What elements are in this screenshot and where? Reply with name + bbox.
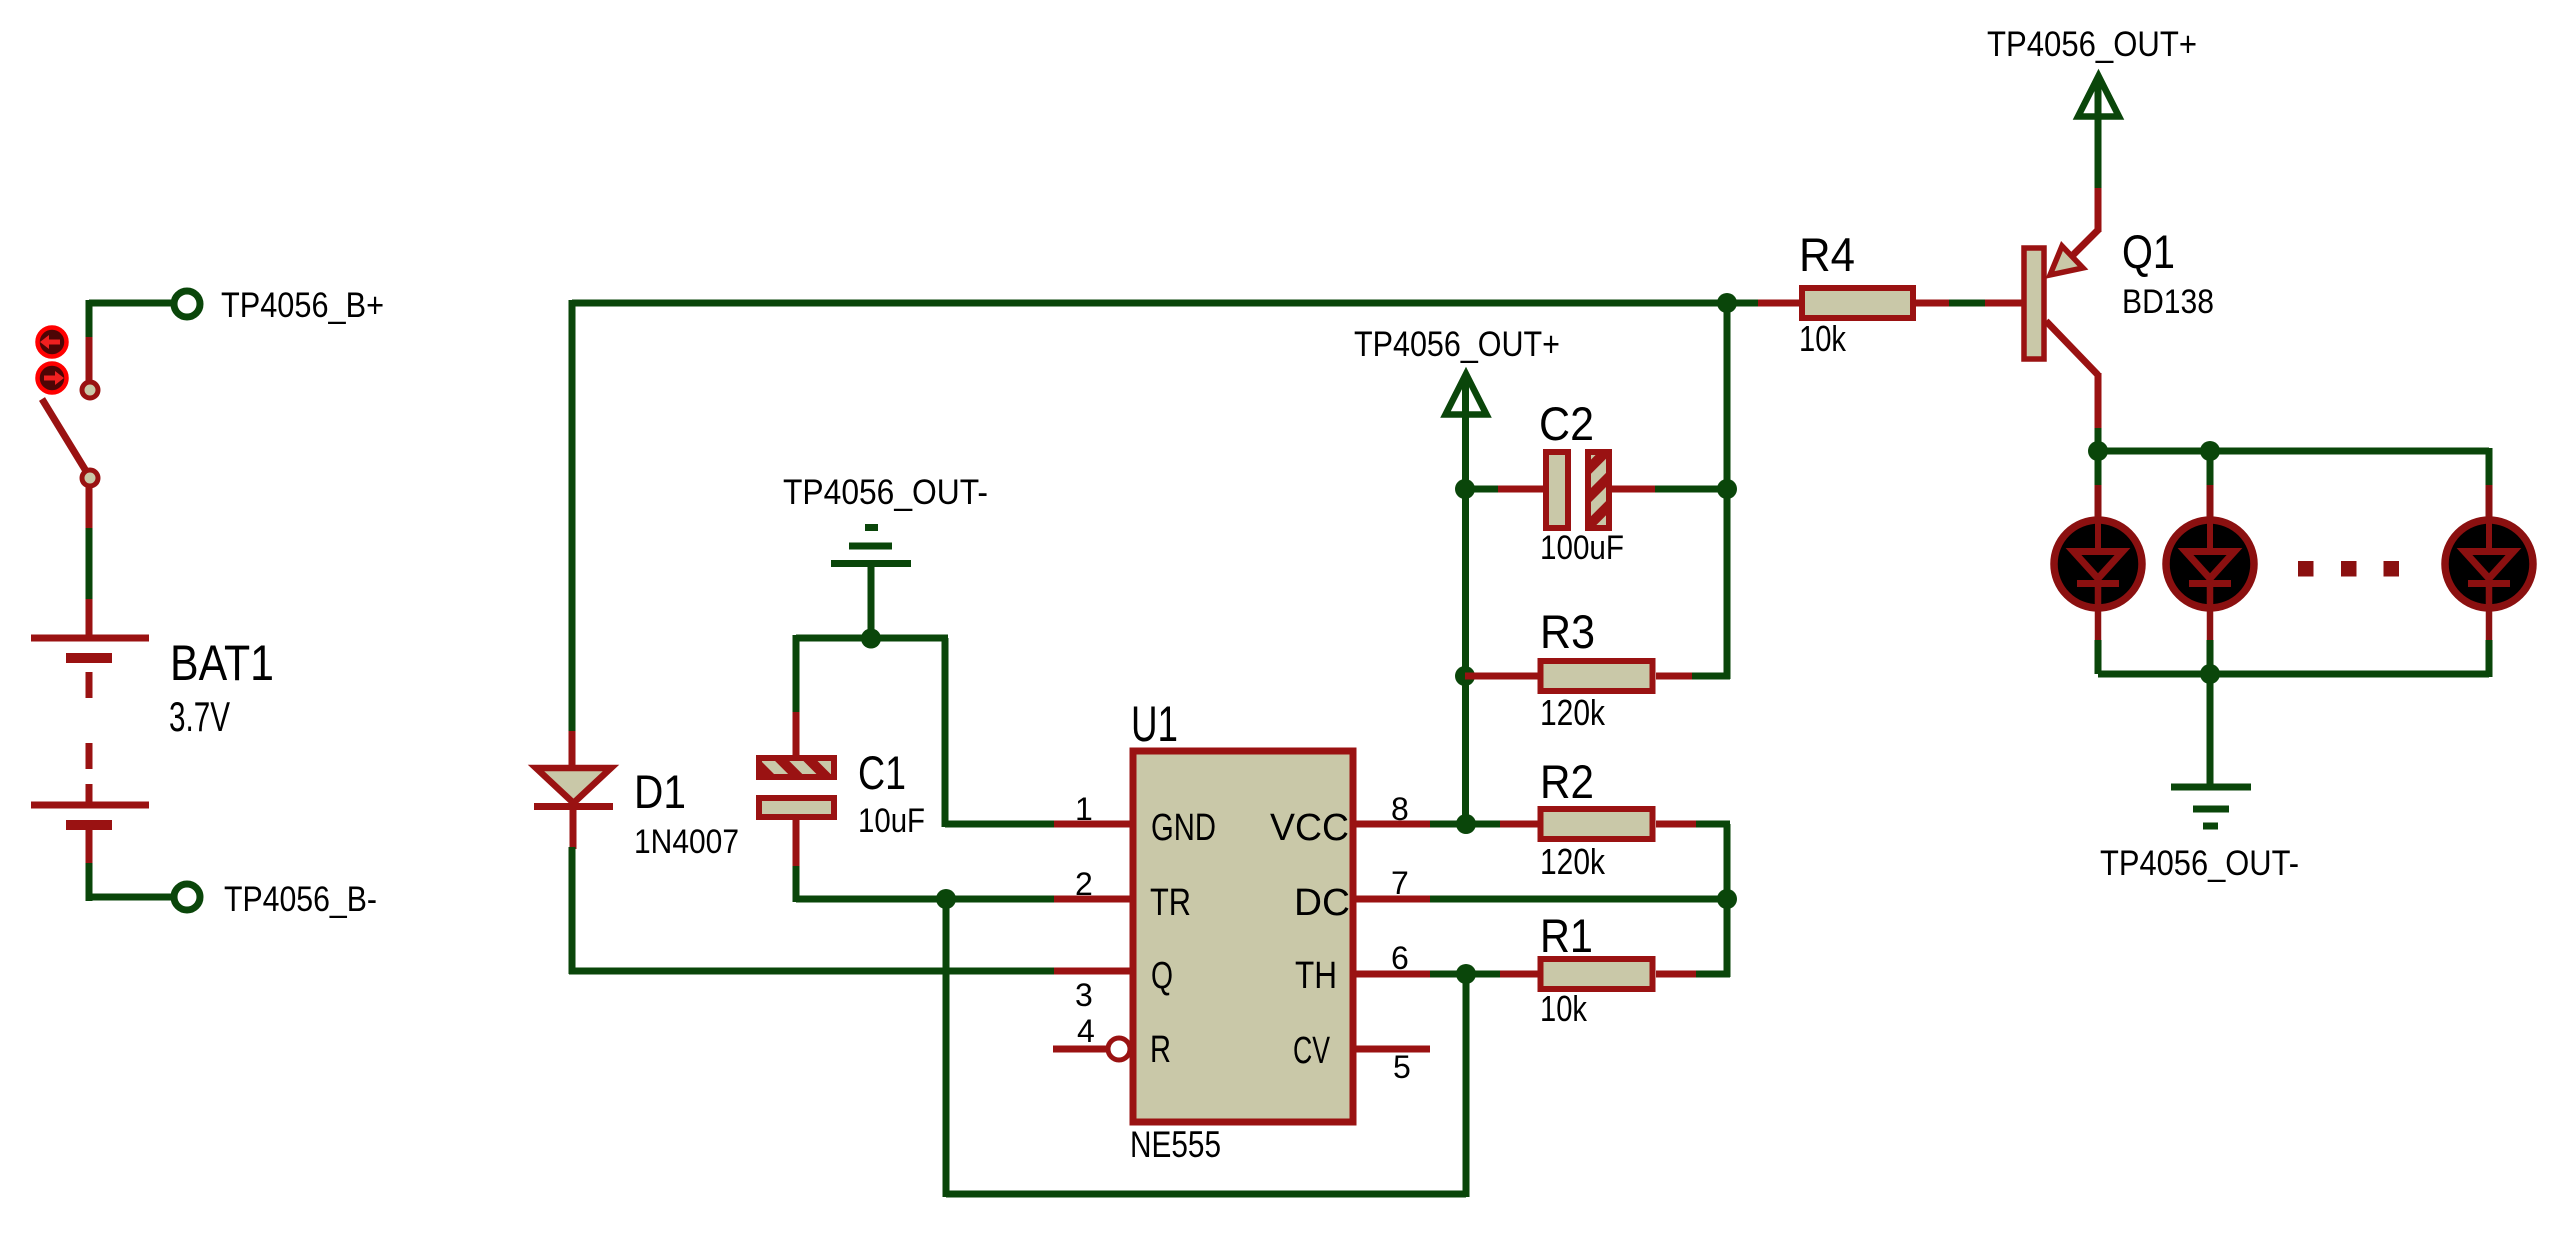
svg-text:120k: 120k xyxy=(1540,692,1606,733)
svg-text:R4: R4 xyxy=(1799,228,1855,281)
svg-text:VCC: VCC xyxy=(1270,807,1349,849)
svg-text:D1: D1 xyxy=(634,765,686,818)
pin 3 stub xyxy=(1054,968,1130,975)
junction pin6 xyxy=(1456,964,1476,984)
resistor R4 xyxy=(1758,288,1952,318)
wire vert x1727 upper xyxy=(1724,300,1731,679)
svg-text:R2: R2 xyxy=(1540,755,1594,808)
junction top bus xyxy=(1717,293,1737,313)
terminal TP4056_B- xyxy=(174,884,200,910)
wire vert pin2 to bottom xyxy=(943,899,950,1197)
wire pin8 to R2 xyxy=(1430,821,1503,828)
svg-text:DC: DC xyxy=(1294,882,1350,924)
pin 5 stub xyxy=(1356,1046,1430,1053)
wire pin7 xyxy=(1430,896,1730,903)
power symbol TP4056_OUT+ (mid) xyxy=(1446,374,1487,827)
op-amp U1 body xyxy=(1133,751,1353,1122)
junction pin2 xyxy=(936,889,956,909)
svg-text:10k: 10k xyxy=(1540,988,1588,1029)
svg-text:4: 4 xyxy=(1077,1013,1095,1049)
wire LED top bus xyxy=(2098,448,2489,455)
svg-text:R3: R3 xyxy=(1540,605,1595,658)
LED D3 xyxy=(2166,451,2254,674)
wire C1 bottom to pin2 xyxy=(793,866,800,902)
wire pin3 Q xyxy=(569,968,1056,975)
svg-text:U1: U1 xyxy=(1131,696,1178,752)
resistor R2 xyxy=(1500,809,1698,839)
capacitor C1 xyxy=(759,712,834,868)
svg-text:GND: GND xyxy=(1151,807,1216,849)
svg-text:TH: TH xyxy=(1295,955,1337,997)
ground TP4056_OUT- (LEDs) xyxy=(2171,787,2251,826)
wire vert to pin1 xyxy=(942,638,949,827)
wire vert to R1 right xyxy=(1724,899,1731,977)
svg-text:TR: TR xyxy=(1150,882,1191,924)
svg-text:R: R xyxy=(1150,1029,1171,1071)
wire collector down xyxy=(2095,428,2102,454)
resistor R3 xyxy=(1465,661,1695,691)
svg-text:3.7V: 3.7V xyxy=(169,693,230,740)
svg-text:100uF: 100uF xyxy=(1540,529,1624,567)
svg-text:5: 5 xyxy=(1393,1049,1411,1085)
LED D2 xyxy=(2054,451,2142,674)
svg-text:BD138: BD138 xyxy=(2122,283,2214,321)
junction pin8 xyxy=(1456,814,1476,834)
junction collector xyxy=(2088,441,2108,461)
wire ground stem xyxy=(2207,674,2214,789)
wire battery to B- xyxy=(86,863,93,901)
wire R1 right corner xyxy=(1696,971,1730,978)
wire C2 right xyxy=(1655,486,1730,493)
resistor R1 xyxy=(1500,959,1698,989)
junction pin7 xyxy=(1717,889,1737,909)
wire top bus xyxy=(572,300,1761,307)
junction LED2 top xyxy=(2200,441,2220,461)
svg-text:6: 6 xyxy=(1391,940,1409,976)
battery BAT1 xyxy=(31,599,149,865)
junction LED bottom xyxy=(2200,664,2220,684)
wire R4 to Q1 xyxy=(1949,300,1988,307)
wire D1 bottom xyxy=(569,847,576,974)
wire LED bottom bus xyxy=(2098,671,2489,678)
wire bottom run xyxy=(946,1191,1466,1198)
ground TP4056_OUT- (above C1) xyxy=(831,528,911,642)
wire D1 vertical top xyxy=(569,300,576,733)
switch SW xyxy=(42,337,98,530)
ellipsis dots xyxy=(2298,561,2399,577)
svg-text:Q: Q xyxy=(1151,955,1173,997)
diode D1 xyxy=(534,731,613,849)
svg-text:10k: 10k xyxy=(1799,318,1847,359)
svg-text:1N4007: 1N4007 xyxy=(634,823,739,861)
pin 6 stub xyxy=(1356,971,1430,978)
wire B+ horizontal xyxy=(89,300,172,307)
junction C2 left xyxy=(1455,479,1475,499)
wire pin6 to R1 xyxy=(1430,971,1503,978)
svg-text:7: 7 xyxy=(1391,865,1409,901)
switch SW toggle buttons xyxy=(38,328,67,393)
svg-text:TP4056_B+: TP4056_B+ xyxy=(221,286,384,325)
terminal TP4056_B+ xyxy=(174,291,200,317)
svg-text:120k: 120k xyxy=(1540,841,1606,882)
wire R2 right corner xyxy=(1696,821,1730,828)
junction R3 left xyxy=(1455,666,1475,686)
LED D4 xyxy=(2445,448,2533,677)
wire switch-battery green xyxy=(86,528,93,601)
svg-text:3: 3 xyxy=(1075,977,1093,1013)
svg-text:R1: R1 xyxy=(1540,909,1593,962)
pin 4 stub with bubble xyxy=(1053,1046,1108,1053)
pin 2 stub xyxy=(1054,896,1130,903)
svg-text:BAT1: BAT1 xyxy=(170,635,274,691)
svg-text:TP4056_OUT-: TP4056_OUT- xyxy=(2100,844,2299,883)
svg-text:NE555: NE555 xyxy=(1130,1124,1221,1165)
transistor Q1 xyxy=(2024,188,2099,430)
power symbol TP4056_OUT+ (Q1) xyxy=(2078,76,2119,190)
wire B+ vertical green xyxy=(86,300,93,340)
svg-text:Q1: Q1 xyxy=(2122,225,2175,278)
pin 1 stub xyxy=(1054,821,1130,828)
wire C2 left xyxy=(1465,486,1500,493)
junction C2 right xyxy=(1717,479,1737,499)
svg-text:TP4056_OUT+: TP4056_OUT+ xyxy=(1354,325,1560,364)
svg-text:TP4056_B-: TP4056_B- xyxy=(224,880,377,919)
svg-text:2: 2 xyxy=(1075,866,1093,902)
Q1 base stub xyxy=(1985,300,2023,307)
svg-text:10uF: 10uF xyxy=(858,802,925,840)
wire R3 right xyxy=(1692,673,1730,680)
junction C1-ground xyxy=(861,629,881,649)
capacitor C2 xyxy=(1498,452,1657,528)
wire vert x1466 bottom xyxy=(1463,974,1470,1197)
svg-text:1: 1 xyxy=(1075,791,1093,827)
wire C1 top net xyxy=(796,635,948,642)
svg-text:8: 8 xyxy=(1391,791,1409,827)
pin 8 stub xyxy=(1356,821,1430,828)
svg-text:CV: CV xyxy=(1293,1030,1330,1072)
svg-text:TP4056_OUT+: TP4056_OUT+ xyxy=(1987,25,2197,64)
svg-text:TP4056_OUT-: TP4056_OUT- xyxy=(783,473,988,512)
svg-text:C2: C2 xyxy=(1539,397,1594,450)
pin 7 stub xyxy=(1356,896,1430,903)
svg-text:C1: C1 xyxy=(858,746,906,799)
